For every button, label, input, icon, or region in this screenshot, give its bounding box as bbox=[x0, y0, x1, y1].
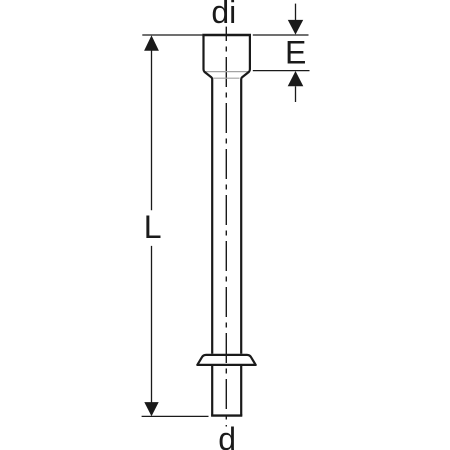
flange collar bbox=[197, 355, 255, 365]
svg-text:L: L bbox=[144, 209, 162, 245]
wire tube left wall below flange bbox=[211, 366, 213, 416]
node internal taper bottom line (light) bbox=[213, 77, 239, 79]
socket left wall and taper into tube left wall bbox=[204, 35, 213, 354]
node L arrow down bbox=[144, 402, 158, 416]
wire top-left extension line bbox=[142, 34, 202, 36]
svg-text:di: di bbox=[211, 0, 236, 30]
socket right wall and taper into tube right wall bbox=[241, 35, 250, 354]
wire centerline of pipe (dash-dot) bbox=[225, 27, 227, 427]
tube bottom edge bbox=[211, 414, 242, 416]
node E arrow up tail bbox=[295, 86, 297, 102]
svg-text:E: E bbox=[285, 34, 306, 70]
node E arrow down tail bbox=[295, 4, 297, 21]
node L arrow up bbox=[144, 35, 159, 50]
wire top-right extension line bbox=[253, 34, 309, 36]
wire tube right wall below flange bbox=[240, 366, 242, 416]
wire L dimension line upper segment bbox=[151, 50, 153, 210]
svg-text:d: d bbox=[218, 421, 236, 450]
socket top edge bbox=[202, 34, 251, 36]
node internal socket shoulder line (light) bbox=[205, 71, 249, 73]
wire bottom-right extension line bbox=[253, 70, 310, 72]
node E arrow down bbox=[288, 20, 303, 35]
node E arrow up bbox=[288, 71, 304, 86]
wire bottom-left extension line bbox=[142, 415, 209, 417]
wire L dimension line lower segment bbox=[151, 246, 153, 403]
